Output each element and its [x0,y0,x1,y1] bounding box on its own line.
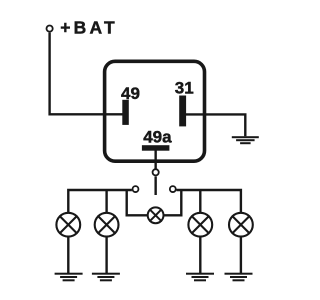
wire right contact to right lamps [176,190,241,212]
lamp L2 [95,213,119,237]
ground lamp L2 [92,273,120,282]
battery terminal circle [47,26,53,32]
ground lamp L1 [55,273,83,282]
lamp L3 [188,213,212,237]
wire lamp L1 to ground [67,237,69,273]
wire lamp L3 to ground [199,237,201,273]
switch right contact [170,186,176,192]
wire junction to pilot lamp left [127,190,148,215]
switch lever [154,176,156,195]
ground symbol pin 31 [232,136,259,144]
switch left contact [133,186,139,192]
wire left contact to left lamps [68,190,132,212]
pin 49 bar [122,100,129,125]
relay body [105,61,205,161]
wire drop to lamp L2 [105,190,107,212]
switch node circle 49a [153,169,159,175]
pin 49a bar [142,145,170,151]
wire junction to pilot lamp right [164,190,182,215]
lamp L1 [56,213,80,237]
ground lamp L4 [225,273,253,282]
wire pin 31 to ground [184,114,245,136]
wire pin 49a to switch node [154,151,156,170]
wire drop to lamp L3 [199,190,201,212]
svg-text:49a: 49a [143,127,172,146]
lamp L4 [229,213,253,237]
wire lamp L2 to ground [105,237,107,273]
wire lamp L4 to ground [240,237,242,273]
svg-text:49: 49 [121,84,140,103]
pin 31 bar [179,96,186,127]
wire battery to pin 49 [50,33,124,115]
svg-text:+BAT: +BAT [60,18,118,38]
ground lamp L3 [186,273,214,282]
svg-text:31: 31 [175,78,194,97]
pilot lamp [148,207,164,223]
